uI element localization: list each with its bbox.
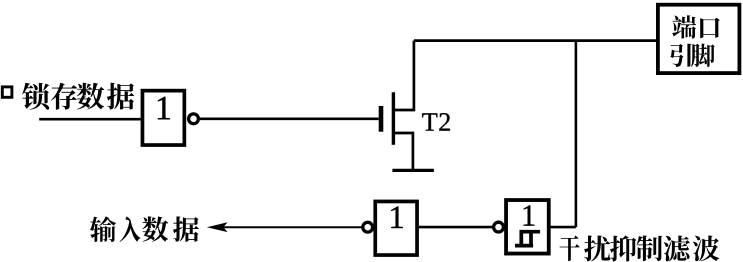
text label 干扰抑制滤波: 抑	[610, 236, 636, 262]
wire: schmitt U3 output to junction	[551, 226, 576, 229]
text label left: 数	[77, 83, 104, 110]
schmitt U3 hysteresis symbol	[515, 232, 540, 246]
text label 输入数据: 入	[120, 216, 141, 241]
text label left: 据	[107, 83, 134, 110]
text label left: 锁	[22, 83, 49, 110]
text label 干扰抑制滤波: 波	[693, 236, 719, 262]
gate symbol label 1 (U1)	[158, 97, 170, 120]
arrowhead on 输入数据 output	[207, 222, 228, 232]
wire: output arrow line	[222, 226, 362, 228]
text label 干扰抑制滤波: 制	[637, 236, 663, 262]
port box text line2: 引	[670, 44, 691, 67]
inverter U1 box	[142, 91, 184, 145]
text label 输入数据: 据	[173, 216, 199, 241]
text label 输入数据: 数	[142, 216, 168, 241]
transistor designator T2	[422, 113, 437, 130]
transistor T2 source lead	[393, 133, 413, 169]
schmitt trigger U3 box	[506, 200, 549, 254]
buffer U2 input bubble	[363, 222, 373, 232]
text label left: 存	[51, 83, 77, 110]
wire: buffer U2 to schmitt U3	[419, 226, 493, 229]
wire: input to inverter U1	[39, 118, 140, 121]
ground bar	[392, 169, 434, 172]
text label left: 口 (clipped small char)	[2, 87, 12, 97]
wire: drain to port pin box (top)	[414, 39, 656, 42]
port pin box 端口引脚	[658, 5, 740, 73]
text label 输入数据: 输	[90, 216, 116, 242]
port box text line1: 端	[672, 15, 696, 38]
port box text line2: 脚	[691, 44, 715, 67]
transistor T2 channel bar	[392, 92, 395, 145]
port box text line1: 口	[700, 18, 720, 39]
buffer U2 box	[375, 201, 417, 255]
gate symbol label 1 (U3)	[524, 205, 535, 225]
transistor T2 gate bar	[379, 106, 384, 132]
schmitt U3 input bubble	[494, 222, 504, 232]
inverter U1 output bubble	[189, 114, 199, 124]
text label 干扰抑制滤波: 滤	[664, 236, 690, 262]
text label 干扰抑制滤波: 干	[559, 236, 579, 261]
wire: inverter U1 output to T2 gate	[200, 118, 379, 121]
transistor T2 drain lead	[393, 41, 414, 110]
wire: junction vertical from top wire down to filter output	[575, 41, 578, 228]
gate symbol label 1 (U2)	[391, 206, 402, 228]
text label 干扰抑制滤波: 扰	[584, 236, 610, 262]
